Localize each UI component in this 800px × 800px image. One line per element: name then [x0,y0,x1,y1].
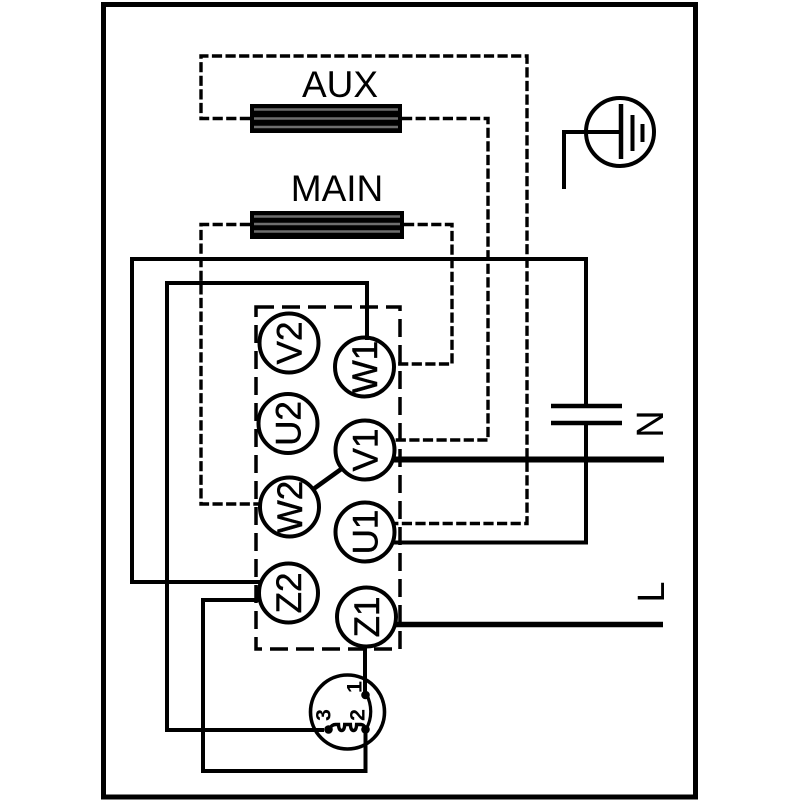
heater squiggle between 3 and 2 [330,725,366,731]
svg-text:3: 3 [312,709,336,721]
svg-text:1: 1 [343,681,367,693]
terminal Z2 [259,564,318,623]
terminal U1 [336,503,395,562]
svg-text:2: 2 [346,709,370,721]
wire: thick L supply line from Z1 [394,622,663,628]
auxiliary winding AUX [250,104,402,133]
wire: dashed from AUX right terminal down to V1 [393,119,488,441]
contact 1 dot [361,691,370,700]
wire: dashed loop from AUX left terminal up over the top and down to U1 [201,56,527,524]
terminal Z1 [337,588,396,647]
net label L [631,581,673,602]
svg-text:V2: V2 [271,322,310,365]
svg-text:W1: W1 [346,341,385,394]
svg-text:AUX: AUX [302,64,378,105]
terminal V2 [260,314,319,373]
wire: thick N supply line from V1 [393,457,664,463]
main winding MAIN [250,211,404,239]
svg-text:Z1: Z1 [348,597,387,638]
svg-text:W2: W2 [271,481,310,534]
terminal V1 [336,421,395,480]
wire: solid from Z1 down to thermal contact 1 [363,645,367,695]
terminal W1 [335,338,394,397]
wire: dashed from MAIN right terminal down to W1 [394,225,452,365]
thermal protector [311,675,385,749]
svg-text:U1: U1 [347,510,386,555]
switch blade arc from 1 to 2 [366,693,371,730]
svg-text:U2: U2 [270,401,309,446]
terminal U2 [259,394,318,453]
svg-text:N: N [630,410,672,437]
terminal block dashed outline [256,307,400,649]
net label N [630,410,672,437]
terminal W2 [260,478,319,537]
protective earth symbol [586,98,654,166]
svg-text:V1: V1 [347,429,386,472]
link bar between W2 and V1 [314,469,343,490]
wire: solid from Z2 lower terminal down and around to thermal contact 2 [203,600,366,771]
contact 3 dot [324,725,333,734]
capacitor C [551,406,622,423]
wire: solid from capacitor bottom down to U1 [392,423,586,543]
svg-text:Z2: Z2 [270,573,309,614]
label AUX [302,64,378,105]
wire: solid from Z2 up and across to capacitor top [132,259,586,582]
wire: dashed from MAIN left terminal down to W2 [201,225,261,505]
wire: solid from thermal contact 3 up over to W1 top [167,283,367,730]
svg-text:MAIN: MAIN [291,168,384,209]
wire: solid to protective earth symbol [564,132,620,189]
svg-text:L: L [631,581,673,602]
label MAIN [291,168,384,209]
contact 2 dot [361,725,370,734]
